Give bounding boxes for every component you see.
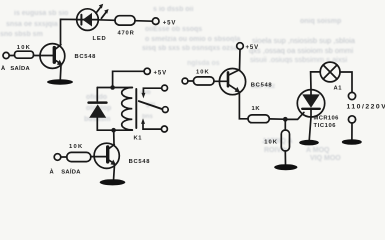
- emitter wire down: [113, 165, 116, 179]
- LED arrow 1: [96, 4, 103, 13]
- ground (mains): [342, 139, 362, 145]
- input terminal: [182, 78, 188, 84]
- collector wire up to relay rail: [113, 130, 115, 145]
- wire terminal to R 10K: [61, 156, 67, 158]
- wire terminal to R 10K: [9, 55, 14, 57]
- svg-text:SAÍDA: SAÍDA: [61, 167, 81, 175]
- junction node (bottom rail): [111, 128, 116, 133]
- contact: NC fixed (top): [142, 85, 168, 98]
- SCR cathode wire to ground: [309, 117, 311, 140]
- collector wire up to LED rail: [61, 19, 77, 44]
- svg-text:10K: 10K: [17, 45, 31, 51]
- resistor 10K (base): [67, 152, 91, 161]
- svg-text:BC548: BC548: [129, 159, 151, 165]
- SCR anode wire to lamp: [311, 72, 321, 90]
- svg-text:+5V: +5V: [246, 45, 260, 51]
- LED: [77, 9, 99, 31]
- terminal +5V (B): [144, 68, 150, 74]
- svg-text:10K: 10K: [69, 144, 84, 150]
- transistor Q3 BC548: [219, 69, 245, 95]
- diode D1 (cathode up): [89, 103, 107, 118]
- wire R to base Q3: [214, 80, 227, 82]
- wire 470R to +5V terminal: [135, 20, 152, 23]
- terminal +5V (A): [152, 18, 159, 25]
- input terminal (À SAÍDA): [3, 52, 9, 58]
- wire 10K to ground: [284, 151, 286, 164]
- wire bottom terminal to ground: [351, 123, 353, 139]
- relay core bar: [135, 89, 137, 128]
- ground (Q1 emitter): [47, 79, 73, 84]
- svg-text:+5V: +5V: [154, 70, 168, 76]
- svg-text:LED: LED: [93, 36, 107, 42]
- svg-text:TIC106: TIC106: [314, 123, 337, 129]
- svg-text:10K: 10K: [264, 140, 278, 146]
- transistor Q1 BC548: [40, 44, 65, 69]
- svg-text:À: À: [1, 65, 6, 72]
- wire LED to resistor 470R: [98, 19, 115, 22]
- transistor Q2 BC548: [94, 143, 119, 168]
- emitter wire down: [59, 65, 62, 79]
- junction node (top rail): [110, 85, 115, 90]
- contact: common blade: [139, 101, 168, 112]
- resistor 1K: [248, 115, 269, 123]
- wire 1K to junction: [269, 118, 283, 120]
- terminal +5V (C): [237, 43, 244, 50]
- wire terminal to R 10K: [188, 80, 193, 82]
- emitter wire down to 1K: [239, 92, 248, 119]
- resistor 10K (base): [15, 51, 34, 58]
- lamp A1: [320, 62, 340, 82]
- svg-text:À: À: [50, 168, 55, 175]
- svg-text:BC548: BC548: [75, 54, 97, 60]
- ground (SCR): [299, 140, 319, 146]
- +5V stub wire: [113, 71, 144, 87]
- input terminal (À SAÍDA): [54, 154, 61, 161]
- top rail of diode/coil: [97, 87, 132, 89]
- terminal 110/220V (top): [348, 92, 355, 99]
- svg-text:MCR106: MCR106: [314, 116, 340, 122]
- ground (10K): [274, 164, 297, 170]
- svg-text:SAÍDA: SAÍDA: [10, 64, 30, 72]
- svg-text:110/220V: 110/220V: [347, 103, 385, 110]
- LED arrow 2: [101, 9, 108, 18]
- resistor 10K (base): [193, 77, 214, 85]
- wire R to base Q1: [34, 55, 53, 57]
- contact: NO fixed (bottom): [141, 118, 167, 132]
- diode branch wires: [96, 118, 98, 131]
- bottom rail of diode/coil: [97, 129, 132, 131]
- svg-text:A1: A1: [334, 85, 343, 91]
- svg-text:1K: 1K: [252, 106, 261, 112]
- svg-text:470R: 470R: [118, 31, 135, 37]
- svg-text:+5V: +5V: [163, 20, 177, 26]
- wire junction to SCR gate: [288, 112, 304, 119]
- SCR MCR106/TIC106: [297, 90, 324, 117]
- wire junction down to 10K: [284, 122, 286, 131]
- svg-text:BC548: BC548: [251, 83, 273, 89]
- svg-text:10K: 10K: [196, 69, 210, 75]
- junction node (gate): [283, 117, 288, 122]
- wire +5V to collector Q3: [239, 49, 242, 69]
- faint print bleed-through background text: [14, 10, 68, 17]
- relay coil K1: [122, 88, 133, 130]
- terminal 110/220V (bottom): [348, 116, 355, 123]
- resistor 10K (gate-cathode): [281, 130, 289, 151]
- svg-text:K1: K1: [134, 136, 143, 142]
- ground (Q2 emitter): [100, 179, 126, 185]
- resistor 470R: [115, 16, 135, 25]
- lamp to mains terminal wire: [340, 72, 352, 92]
- wire R to base Q2: [91, 156, 106, 158]
